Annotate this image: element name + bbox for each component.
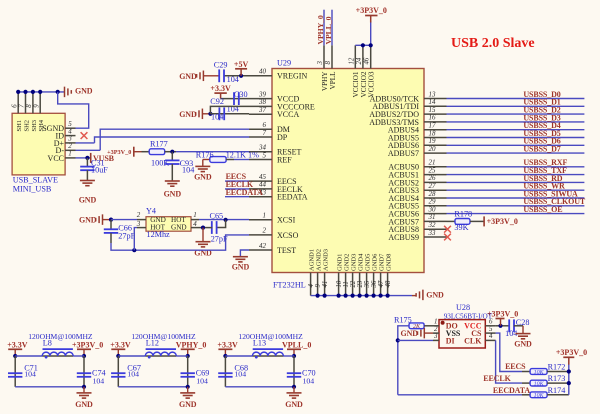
svg-text:104: 104 [182, 165, 194, 174]
wire left cap column L8 [14, 356, 16, 387]
U29 pin 6 DM [249, 121, 290, 134]
svg-text:MINI_USB: MINI_USB [13, 185, 52, 194]
junction bottom L12 [186, 385, 190, 389]
capacitor C66 [104, 229, 118, 233]
svg-text:+3.3V: +3.3V [210, 84, 231, 93]
wire GND to C29 [204, 75, 219, 77]
wire SGND to shield [58, 92, 89, 128]
wire C93 top lead [171, 152, 173, 161]
svg-text:USBSS_D7: USBSS_D7 [523, 145, 560, 154]
wire gnd stem L12 [187, 387, 189, 393]
wire R175 left to DI net [398, 326, 409, 395]
U29 pin 24 VCCIO2 [356, 45, 368, 97]
svg-text:8: 8 [26, 104, 33, 108]
wire VPLL_0 stem [293, 349, 295, 356]
wire Y4 pin1 to XCSI [199, 219, 249, 221]
wire pullup rail R172 [547, 371, 569, 373]
svg-text:34: 34 [258, 144, 267, 152]
junction left L12 [116, 354, 120, 358]
svg-text:32: 32 [428, 221, 437, 229]
svg-text:22: 22 [350, 280, 357, 287]
svg-text:GND: GND [232, 263, 250, 272]
power VPHY_0 [176, 340, 207, 349]
U29 pin 38 VCCCORE [249, 98, 315, 111]
svg-text:+3P3V_0: +3P3V_0 [72, 340, 103, 349]
wire R176 to REF [234, 159, 249, 161]
svg-text:HOT: HOT [150, 224, 165, 232]
svg-text:7: 7 [19, 104, 26, 108]
wire R176 lead [226, 159, 234, 161]
svg-text:R174: R174 [548, 386, 566, 395]
U29 pin 41 AGND3 [322, 249, 330, 296]
svg-text:VPHY_0: VPHY_0 [176, 340, 207, 349]
power +3.3V at L8 [7, 340, 28, 349]
wire R177 lead [165, 151, 176, 153]
svg-text:ADBUS7: ADBUS7 [388, 149, 419, 158]
wire C66 top lead [110, 220, 112, 230]
resistor R172 [530, 369, 547, 376]
ground at C92 [179, 109, 202, 120]
svg-text:ACBUS9: ACBUS9 [388, 233, 419, 242]
svg-text:GND6: GND6 [372, 253, 379, 271]
wire net USBSS_D3 [447, 121, 585, 123]
svg-text:GND3: GND3 [351, 254, 358, 271]
svg-text:31: 31 [428, 213, 436, 221]
wire VPHY net [323, 10, 325, 46]
svg-text:104: 104 [303, 376, 315, 385]
svg-text:10K: 10K [534, 382, 545, 388]
power +3.3V at L13 [217, 340, 238, 349]
svg-text:C65: C65 [210, 211, 224, 220]
svg-text:EECS: EECS [505, 362, 526, 371]
svg-text:VPLL_0: VPLL_0 [324, 16, 333, 44]
svg-text:XCSI: XCSI [277, 216, 296, 225]
U29 pin 40 VREGIN [249, 68, 307, 81]
svg-text:SH3: SH3 [31, 120, 38, 132]
wire rail right L13 [283, 355, 294, 357]
svg-text:R178: R178 [454, 209, 472, 218]
svg-text:3: 3 [433, 332, 438, 340]
wire pin31 to R178 [447, 220, 456, 222]
svg-text:104: 104 [196, 376, 208, 385]
wire bottom rail L12 [118, 386, 187, 388]
wire net USBSS_D1 [447, 105, 585, 107]
U29 pin 19 ADBUS6 [388, 137, 447, 150]
resistor R174 [530, 392, 547, 399]
svg-text:15: 15 [429, 106, 437, 114]
wire C31 bottom lead [86, 170, 88, 180]
U28 pin 1 DO [433, 318, 458, 331]
resistor R173 [530, 380, 547, 387]
U29 pin 27 ACBUS3 [388, 182, 446, 195]
svg-text:39: 39 [258, 90, 267, 98]
svg-text:GND8: GND8 [386, 254, 393, 271]
svg-text:41: 41 [322, 281, 329, 288]
svg-text:+3.3V: +3.3V [7, 340, 28, 349]
power VUSB [91, 153, 115, 163]
U29 pin 30 ACBUS6 [388, 205, 446, 218]
U29 pin 20 ADBUS7 [388, 145, 447, 158]
U29 pin 39 VCCD [249, 90, 299, 103]
capacitor C92 [219, 107, 224, 120]
svg-text:12.1K 1%: 12.1K 1% [226, 150, 259, 159]
svg-text:USBSS_OE: USBSS_OE [523, 205, 562, 214]
Y4 pin 1 [171, 211, 199, 224]
wire DP net [95, 137, 250, 143]
wire net USBSS_WR [447, 189, 585, 191]
ground crystal pin4 [194, 242, 212, 258]
svg-text:36: 36 [371, 280, 378, 288]
svg-text:C30: C30 [234, 90, 248, 99]
U29 pin 46 VCCIO3 [364, 45, 376, 97]
wire U29 ground bus [311, 295, 412, 297]
wire pullup rail R174 [547, 394, 569, 396]
capacitor C29 [219, 69, 224, 82]
svg-text:GND: GND [164, 190, 182, 199]
wire +5V stem [240, 69, 242, 76]
svg-text:4: 4 [308, 284, 315, 288]
power +3P3V_0 [72, 340, 103, 349]
svg-text:VPLL_0: VPLL_0 [282, 340, 311, 349]
ground U28 VSS [401, 328, 425, 339]
power +3.3V at C30 [210, 84, 231, 93]
svg-text:EEDATA: EEDATA [277, 193, 308, 202]
svg-text:AGND3: AGND3 [323, 249, 330, 271]
svg-text:+5V: +5V [234, 60, 249, 69]
power +3P3V_0 pullups [556, 348, 587, 357]
wire gnd stem L13 [293, 387, 295, 393]
svg-text:120OHM@100MHZ: 120OHM@100MHZ [28, 332, 93, 341]
wire CLK to EECLK [496, 340, 522, 383]
svg-text:+3.3V: +3.3V [217, 340, 238, 349]
svg-text:93LC56BT-I/OT: 93LC56BT-I/OT [444, 312, 493, 320]
U29 pin 25 ACBUS1 [388, 166, 446, 179]
wire net USBSS_SIWUA [447, 197, 585, 199]
U29 pin 26 ACBUS2 [388, 174, 446, 187]
svg-text:VPLL: VPLL [329, 72, 337, 90]
U28 pin 2 VSS [433, 325, 461, 338]
svg-text:GND2: GND2 [344, 254, 351, 271]
junction R172 rail [567, 369, 571, 373]
svg-text:104: 104 [93, 376, 105, 385]
U29 pin 18 ADBUS5 [388, 129, 447, 142]
U29 pin 14 ADBUS1/TDI [372, 98, 446, 111]
svg-text:GND: GND [79, 196, 97, 205]
capacitor C69 [181, 373, 195, 377]
svg-text:11: 11 [343, 281, 350, 287]
wire net EECS [225, 180, 249, 182]
wire rail right L12 [176, 355, 187, 357]
svg-text:6: 6 [11, 104, 18, 108]
svg-text:EECLK: EECLK [483, 374, 511, 383]
svg-text:EECDATA: EECDATA [493, 386, 530, 395]
U29 pin 34 RESET [249, 144, 302, 157]
ground at C29 [179, 71, 203, 82]
svg-text:20: 20 [429, 145, 437, 153]
svg-text:19: 19 [429, 137, 437, 145]
svg-text:GND: GND [514, 340, 532, 349]
wire C93 bottom lead [171, 164, 173, 181]
svg-text:1: 1 [68, 150, 72, 158]
svg-text:10K: 10K [534, 393, 545, 399]
ground USB shield [65, 87, 93, 98]
no-connect pin 33 [444, 234, 451, 241]
wire to VCCCORE row [210, 106, 249, 113]
wire gnd to crystal pin2 [103, 219, 111, 221]
USB pin 3 D+ [54, 135, 76, 148]
svg-text:VPHY: VPHY [321, 71, 329, 91]
svg-text:3: 3 [317, 61, 324, 66]
wire Y4 pin3 drop [134, 228, 137, 251]
wire +3P3V_0 stem to VCCIO [370, 22, 372, 46]
U29 pin 45 EECS [249, 173, 297, 186]
junction R173 rail [567, 381, 571, 385]
U29 pin 1 XCSI [249, 212, 296, 225]
svg-text:18: 18 [429, 129, 437, 137]
svg-text:14: 14 [429, 98, 437, 106]
svg-text:104: 104 [227, 75, 239, 84]
U29 pin 5 REF [249, 151, 292, 164]
ground filter L12 [179, 393, 197, 409]
wire crystal bottom rail [111, 235, 249, 250]
svg-text:GND5: GND5 [365, 254, 372, 271]
svg-text:46: 46 [364, 57, 371, 64]
svg-text:USB 2.0 Slave: USB 2.0 Slave [451, 36, 535, 51]
junction right L13 [292, 354, 296, 358]
junction crystal pin2/C66 [109, 218, 113, 222]
U29 pin 44 EECLK [249, 181, 303, 194]
wire lead to R177 [142, 151, 150, 153]
junction C93 [170, 150, 174, 154]
junction VCC power [498, 324, 502, 328]
svg-text:4: 4 [489, 332, 493, 340]
U28 pin 6 VCC [464, 318, 495, 331]
svg-text:GND: GND [75, 400, 93, 409]
wire R178 to +3P3V_0 [470, 220, 484, 222]
wire gnd to VSS [424, 332, 433, 334]
junction DI [396, 338, 400, 342]
wire R175 to DO [424, 325, 433, 327]
junction shield dots [16, 90, 60, 94]
svg-text:U28: U28 [456, 303, 470, 312]
U29 pin 42 TEST [249, 242, 296, 255]
svg-text:120OHM@100MHZ: 120OHM@100MHZ [131, 332, 196, 341]
wire VCCA row [210, 113, 249, 115]
U29 pin 17 ADBUS4 [388, 122, 447, 135]
svg-text:GND: GND [171, 224, 187, 232]
svg-text:R176: R176 [196, 150, 214, 159]
junction C65 top [224, 218, 228, 222]
capacitor C71 [8, 373, 22, 377]
capacitor C30 [234, 92, 239, 105]
wire C31 top lead [86, 158, 88, 167]
svg-text:C92: C92 [210, 97, 224, 106]
svg-text:40: 40 [259, 68, 267, 76]
wire VCCD row [221, 98, 249, 100]
svg-text:104: 104 [24, 369, 36, 378]
wire pin4 gnd drop [202, 228, 204, 242]
wire VCC to VUSB [76, 157, 91, 159]
svg-text:VCCA: VCCA [277, 110, 299, 119]
USB pin 6 SH1 [11, 92, 23, 132]
svg-text:104: 104 [234, 369, 246, 378]
wire +3.3V stem to VCCD [220, 93, 222, 99]
ground filter L13 [285, 393, 303, 409]
wire left cap column L13 [224, 356, 226, 387]
svg-text:13: 13 [429, 90, 437, 98]
wire +3P3V stem U28 [500, 319, 502, 326]
ground at C93 [164, 181, 182, 199]
wire right cap column L8 [83, 356, 85, 387]
wire +3P3V to R177 [134, 151, 142, 153]
wire DI to junction [398, 339, 433, 341]
resistor R176 [210, 157, 226, 163]
svg-text:TEST: TEST [277, 246, 296, 255]
U29 pin 22 GND3 [350, 254, 358, 296]
U29 pin 35 GND5 [364, 254, 372, 296]
svg-text:GND: GND [179, 400, 197, 409]
chip U28 93LC56BT-I/OT body [439, 320, 485, 348]
svg-text:REF: REF [277, 155, 292, 164]
wire pullup vertical [568, 364, 570, 395]
svg-text:VCCIO2: VCCIO2 [360, 71, 368, 97]
svg-text:DP: DP [277, 133, 288, 142]
U29 pin 43 EEDATA [249, 189, 308, 202]
U29 pin 7 DP [249, 129, 288, 142]
U29 pin 36 GND6 [371, 253, 379, 296]
svg-text:DI: DI [446, 336, 455, 345]
svg-text:47: 47 [378, 280, 385, 287]
wire R177 to RESET [176, 151, 249, 153]
power +3P3V_0 at R178 [484, 216, 518, 226]
wire rail left L8 [15, 355, 42, 357]
inductor L12 120OHM@100MHZ [145, 349, 176, 358]
svg-text:GND1: GND1 [337, 254, 344, 271]
U29 pin 11 GND2 [343, 254, 351, 296]
svg-text:+3.3V: +3.3V [110, 340, 131, 349]
U29 pin 9 AGND2 [315, 249, 323, 296]
svg-text:21: 21 [429, 159, 436, 167]
svg-text:GND: GND [179, 110, 197, 119]
wire net USBSS_D7 [447, 152, 585, 154]
svg-text:FT232HL: FT232HL [273, 281, 306, 290]
svg-text:10K: 10K [534, 370, 545, 376]
junction left L8 [13, 354, 17, 358]
wire VPHY_0 stem [187, 349, 189, 356]
resistor R178 [455, 219, 470, 225]
wire right cap column L13 [293, 356, 295, 387]
capacitor C28 [509, 319, 514, 332]
svg-text:23: 23 [357, 280, 364, 287]
svg-text:7: 7 [263, 129, 267, 137]
U29 pin 37 VCCA [249, 106, 299, 119]
wire net USBSS_TXF [447, 174, 585, 176]
wire +3.3V stem L13 [224, 349, 226, 356]
svg-text:104: 104 [127, 369, 139, 378]
capacitor C67 [111, 373, 125, 377]
svg-text:VCC: VCC [48, 154, 64, 163]
svg-text:EECDATA: EECDATA [226, 188, 263, 197]
ground at TEST [232, 257, 250, 272]
U29 pin 3 VPHY [317, 45, 329, 91]
svg-text:8: 8 [325, 61, 332, 65]
wire USB shield bus [18, 91, 64, 93]
svg-text:GND: GND [179, 72, 197, 81]
svg-text:24: 24 [356, 57, 363, 64]
ground at C31 [79, 181, 97, 205]
svg-text:R177: R177 [150, 139, 168, 148]
svg-text:26: 26 [429, 174, 437, 182]
Y4 pin 3 [136, 220, 166, 232]
wire pullup rail R173 [547, 382, 569, 384]
wire net USBSS_OE [447, 213, 585, 215]
svg-text:GND: GND [79, 216, 97, 225]
svg-text:27pF: 27pF [118, 232, 135, 241]
Y4 pin 2 [137, 211, 166, 224]
wire net USBSS_D6 [447, 144, 585, 146]
svg-text:2: 2 [263, 227, 267, 235]
wire +3.3V stem L8 [14, 349, 16, 356]
wire EECDATA net [398, 394, 522, 396]
U29 pin 33 ACBUS9 [388, 229, 446, 242]
svg-text:48: 48 [385, 280, 392, 287]
capacitor C70 [287, 373, 301, 377]
wire net USBSS_D4 [447, 129, 585, 131]
junction VCCIO3 [369, 43, 373, 47]
svg-text:+3P3V_0: +3P3V_0 [487, 217, 518, 226]
svg-text:38: 38 [258, 98, 267, 106]
U29 pin 10 GND1 [336, 254, 344, 296]
svg-text:35: 35 [364, 280, 371, 288]
svg-text:AGND1: AGND1 [309, 249, 316, 271]
wire C28 to gnd [514, 325, 523, 327]
U29 pin 2 XCSO [249, 227, 299, 240]
junction pin4 gnd [201, 226, 205, 230]
no-connect USB ID pin [81, 132, 88, 139]
wire CS to EECS [496, 333, 522, 371]
svg-text:42: 42 [259, 242, 267, 250]
U29 pin 12 VCCIO1 [348, 45, 360, 97]
svg-text:U29: U29 [277, 59, 291, 68]
wire gnd drop U28 [522, 326, 524, 334]
capacitor C65 [212, 221, 217, 234]
no-connect pin 32 [444, 226, 451, 233]
svg-text:R173: R173 [548, 374, 566, 383]
wire +3P3V_0 stem [83, 349, 85, 356]
junction right L8 [82, 354, 86, 358]
svg-text:USB_SLAVE: USB_SLAVE [13, 176, 58, 185]
svg-text:C29: C29 [214, 60, 228, 69]
wire net USBSS_D5 [447, 137, 585, 139]
Y4 pin 4 [171, 220, 199, 232]
capacitor C74 [77, 373, 91, 377]
svg-text:GND: GND [75, 87, 93, 96]
wire rail left L13 [225, 355, 252, 357]
resistor R177 [149, 149, 165, 155]
wire net USBSS_RD [447, 181, 585, 183]
svg-text:GND: GND [401, 329, 419, 338]
U29 pin 32 ACBUS8 [388, 221, 446, 234]
U28 pin 5 CS [471, 325, 495, 338]
wire D+ to DP [76, 142, 95, 144]
wire bottom rail L13 [225, 386, 294, 388]
wire VCCIO rail [355, 44, 370, 46]
U29 pin 16 ADBUS3/TMS [369, 114, 446, 127]
wire +3P3V stem pullups [568, 357, 570, 364]
svg-text:VREGIN: VREGIN [277, 72, 307, 81]
svg-text:1: 1 [263, 212, 267, 220]
wire ground bus lead [412, 295, 416, 297]
